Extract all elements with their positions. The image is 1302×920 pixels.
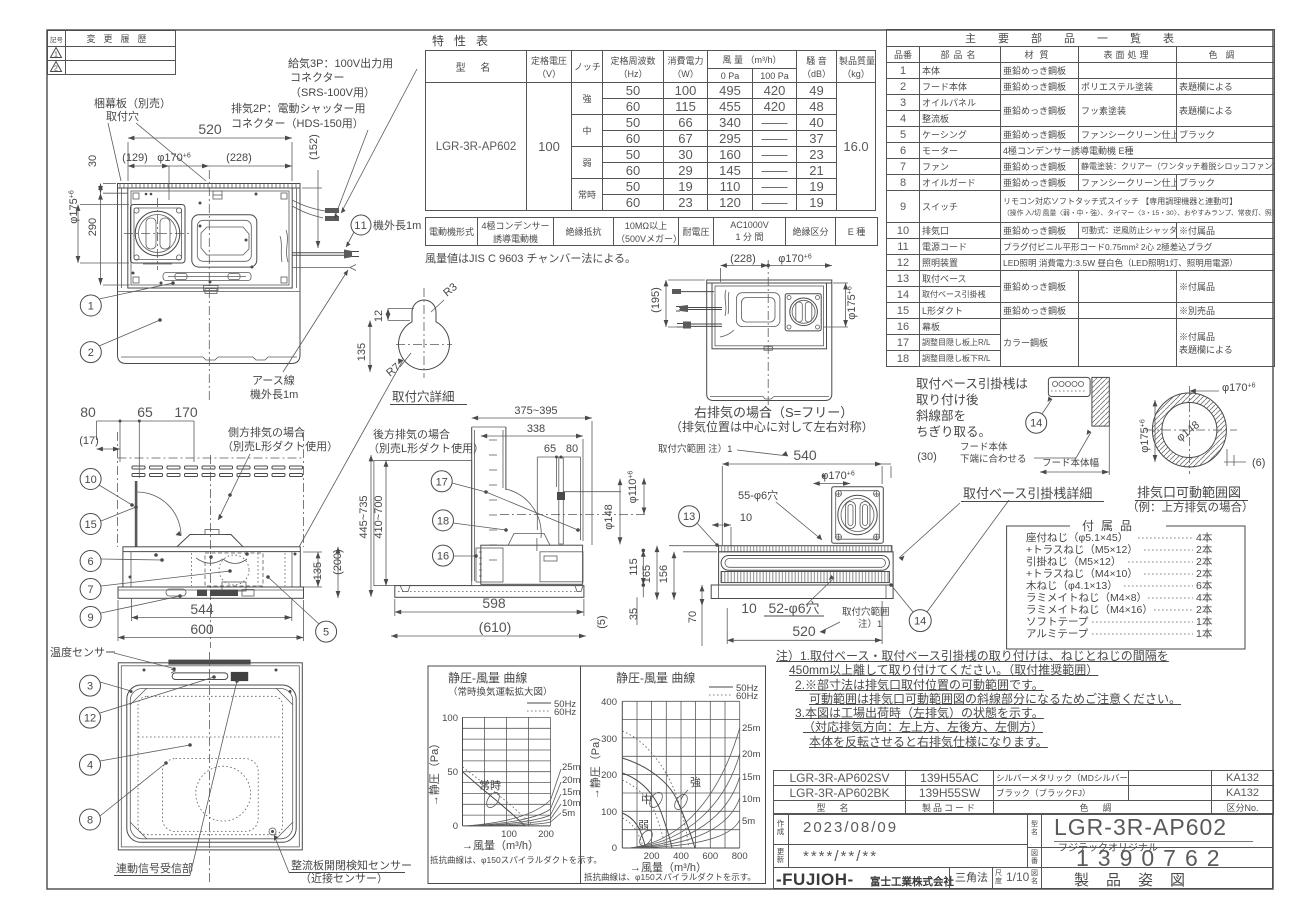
mounting base: exhaust outlet assembly xyxy=(832,487,884,544)
hanger detail: hood width dim xyxy=(1040,426,1109,475)
svg-text:(200): (200) xyxy=(332,549,344,575)
svg-text:コネクター: コネクター xyxy=(290,71,345,84)
right graph resistance curves xyxy=(628,723,761,848)
circled 11 cord length xyxy=(346,215,421,247)
front view: bottom oil panel xyxy=(118,587,304,598)
svg-text:3: 3 xyxy=(87,681,93,693)
side view dims 445-735 410-700 xyxy=(358,455,386,597)
svg-text:（例：上方排気の場合）: （例：上方排気の場合） xyxy=(1127,500,1254,514)
svg-text:ラミメイトねじ（M4×8）: ラミメイトねじ（M4×8） xyxy=(1026,592,1147,604)
hanger detail: instruction text xyxy=(916,376,1028,439)
svg-text:（SRS-100V用）: （SRS-100V用） xyxy=(290,86,375,99)
svg-text:10: 10 xyxy=(84,474,96,486)
circled 16 xyxy=(433,545,478,566)
mounting base dims 165 156 70 xyxy=(641,546,717,646)
mounting base dim 520 xyxy=(727,601,882,644)
svg-text:290: 290 xyxy=(87,218,99,236)
title block top rows xyxy=(773,770,1274,815)
right exhaust dims xyxy=(650,253,858,327)
svg-text:0: 0 xyxy=(612,843,617,854)
svg-text:598: 598 xyxy=(482,595,506,611)
svg-text:6本: 6本 xyxy=(1196,579,1213,592)
characteristics table xyxy=(425,50,876,211)
svg-text:φ170+6: φ170+6 xyxy=(778,253,812,265)
circled 7 xyxy=(80,569,232,599)
svg-text:2本: 2本 xyxy=(1196,567,1213,580)
svg-text:(6): (6) xyxy=(1252,457,1265,469)
svg-text:φ175+6: φ175+6 xyxy=(68,190,80,224)
svg-text:200: 200 xyxy=(601,770,617,781)
svg-text:機外長1m: 機外長1m xyxy=(250,387,298,401)
svg-text:→風量（m³/h）: →風量（m³/h） xyxy=(462,839,539,852)
exhaust range figure xyxy=(1139,382,1265,474)
svg-text:520: 520 xyxy=(792,623,816,639)
circled 8 xyxy=(80,763,167,830)
mounting base dim 10 top xyxy=(712,512,752,548)
svg-text:100: 100 xyxy=(601,807,617,818)
svg-text:60Hz: 60Hz xyxy=(736,691,758,702)
top view: power cord with plug xyxy=(292,250,359,259)
circled 13 xyxy=(679,506,719,547)
front view: duct cover dashed region xyxy=(118,432,304,547)
svg-text:2本: 2本 xyxy=(1196,555,1213,568)
front view dim 544 600 xyxy=(118,598,304,641)
svg-text:16: 16 xyxy=(437,551,449,563)
side view dims 375-395 338 xyxy=(472,405,592,545)
svg-text:(610): (610) xyxy=(479,619,512,635)
circled 14 (mounting base) xyxy=(889,500,1009,632)
side view: hood body xyxy=(476,489,583,584)
svg-text:付属品: 付属品 xyxy=(1082,519,1139,533)
mounting base: rails xyxy=(711,546,893,599)
svg-text:(30): (30) xyxy=(917,451,937,463)
svg-text:15m: 15m xyxy=(742,772,761,783)
svg-text:注）1: 注）1 xyxy=(858,618,882,630)
right exhaust labels xyxy=(670,405,874,434)
svg-text:取付穴範囲 注）1: 取付穴範囲 注）1 xyxy=(658,443,732,455)
svg-text:800: 800 xyxy=(732,851,748,862)
side view label rear exhaust xyxy=(368,427,484,455)
front view: swing arc xyxy=(138,492,182,536)
circled 6 xyxy=(80,551,164,572)
svg-text:25m: 25m xyxy=(562,762,581,773)
right graph grid xyxy=(622,701,739,848)
svg-text:14: 14 xyxy=(1030,418,1042,430)
svg-text:165: 165 xyxy=(641,565,653,583)
svg-text:φ175+6: φ175+6 xyxy=(846,286,858,320)
svg-text:抵抗曲線は、φ150スパイラルダクトを示す。: 抵抗曲線は、φ150スパイラルダクトを示す。 xyxy=(430,855,602,865)
label: supply connector 3P xyxy=(288,56,417,213)
svg-text:25m: 25m xyxy=(742,723,761,734)
label: makuita mounting hole xyxy=(94,96,206,181)
circled 3 xyxy=(80,675,132,696)
svg-text:35: 35 xyxy=(628,608,640,620)
top view: exhaust outlet with shutter xyxy=(131,205,186,265)
hanger detail: bracket with holes xyxy=(1048,377,1090,396)
svg-text:60Hz: 60Hz xyxy=(554,707,576,718)
right exhaust top view: wires out left xyxy=(672,289,722,329)
svg-text:65: 65 xyxy=(137,404,153,420)
svg-text:50: 50 xyxy=(447,767,458,778)
top view: bottom tab xyxy=(204,286,219,291)
svg-text:（近接センサー）: （近接センサー） xyxy=(300,872,388,885)
svg-text:20m: 20m xyxy=(742,749,761,760)
svg-text:（排気位置は中心に対して左右対称）: （排気位置は中心に対して左右対称） xyxy=(670,419,874,434)
bottom view: outer frame xyxy=(118,660,302,850)
svg-text:1本: 1本 xyxy=(1196,627,1213,640)
circled 2 xyxy=(80,318,162,362)
label: earth wire xyxy=(250,270,348,401)
circled 5 xyxy=(266,575,336,642)
bottom view: dotted oil panel lines xyxy=(138,696,283,834)
side view: wall-side region xyxy=(374,460,472,585)
svg-text:常時: 常時 xyxy=(479,779,501,792)
right exhaust top view: hood outline xyxy=(707,280,832,401)
svg-text:4: 4 xyxy=(87,760,93,772)
right exhaust top view: body xyxy=(712,283,827,350)
svg-text:9: 9 xyxy=(88,612,94,624)
svg-text:静圧-風量 曲線: 静圧-風量 曲線 xyxy=(448,670,527,685)
svg-text:連動信号受信部: 連動信号受信部 xyxy=(116,861,193,875)
svg-text:14: 14 xyxy=(914,616,926,628)
svg-text:4本: 4本 xyxy=(1196,591,1213,604)
mounting base dim phi170 xyxy=(813,470,855,484)
svg-text:135: 135 xyxy=(356,343,368,361)
JIS note xyxy=(425,250,636,266)
svg-text:55-φ6穴: 55-φ6穴 xyxy=(738,488,778,502)
svg-text:（別売L形ダクト使用）: （別売L形ダクト使用） xyxy=(368,441,484,455)
svg-text:引掛ねじ（M5×12）: 引掛ねじ（M5×12） xyxy=(1026,555,1121,568)
svg-text:フード本体幅: フード本体幅 xyxy=(1042,457,1100,469)
svg-text:取付穴詳細: 取付穴詳細 xyxy=(392,389,455,404)
bottom view: centerline xyxy=(209,652,211,884)
svg-text:排気口可動範囲図: 排気口可動範囲図 xyxy=(1137,485,1241,500)
svg-text:30: 30 xyxy=(87,155,99,167)
notes block xyxy=(776,649,1268,749)
svg-text:5: 5 xyxy=(323,627,329,639)
front view: side duct bar xyxy=(135,481,138,547)
dimension 520 xyxy=(128,121,292,181)
svg-text:取付穴: 取付穴 xyxy=(106,109,139,123)
front view: hood body xyxy=(123,547,300,591)
svg-text:斜線部を: 斜線部を xyxy=(916,408,966,423)
circled 14 (hanger detail) xyxy=(1026,397,1052,434)
side view: exhaust pipe xyxy=(500,458,648,544)
svg-text:1本: 1本 xyxy=(1196,615,1213,628)
svg-text:20m: 20m xyxy=(562,775,581,786)
svg-text:(195): (195) xyxy=(650,287,662,313)
svg-text:1: 1 xyxy=(88,301,94,313)
left graph curves xyxy=(463,762,581,826)
left graph panel xyxy=(428,666,581,884)
dimension 30 / 290 xyxy=(87,155,130,285)
svg-text:600: 600 xyxy=(702,851,718,862)
svg-text:温度センサー: 温度センサー xyxy=(50,645,116,659)
side view: bottom slab xyxy=(395,586,584,598)
svg-text:取付ベース引掛桟詳細: 取付ベース引掛桟詳細 xyxy=(963,486,1092,501)
svg-text:R3: R3 xyxy=(441,281,459,299)
svg-text:(152): (152) xyxy=(308,134,320,160)
hanger detail: align label xyxy=(960,430,1091,466)
svg-text:後方排気の場合: 後方排気の場合 xyxy=(373,427,450,441)
circled 15 xyxy=(80,505,138,534)
circled 1 xyxy=(80,281,175,316)
svg-text:側方排気の場合: 側方排気の場合 xyxy=(228,425,305,439)
svg-text:機外長1m: 機外長1m xyxy=(373,218,421,232)
svg-text:フード本体: フード本体 xyxy=(960,441,1008,453)
top view: hood outline xyxy=(118,184,301,364)
front view centerline xyxy=(210,455,212,648)
svg-text:375~395: 375~395 xyxy=(514,405,557,417)
svg-text:12: 12 xyxy=(373,310,385,322)
bottom view: signal receiver label xyxy=(114,679,239,875)
bottom view: sensors xyxy=(164,669,276,835)
svg-text:12: 12 xyxy=(84,713,96,725)
mounting base label hole range bottom xyxy=(820,606,890,634)
svg-text:φ170+6: φ170+6 xyxy=(1222,382,1256,394)
svg-text:右排気の場合（S=フリー）: 右排気の場合（S=フリー） xyxy=(694,405,853,420)
keyhole mounting hole detail xyxy=(356,281,467,404)
svg-text:445~735: 445~735 xyxy=(358,495,370,538)
top view: body box xyxy=(122,188,297,288)
svg-text:φ148: φ148 xyxy=(1174,419,1201,444)
svg-text:2本: 2本 xyxy=(1196,543,1213,556)
bottom view: oil panel xyxy=(127,685,296,842)
hanger detail title xyxy=(899,486,1104,561)
svg-text:取付ベース引掛桟は: 取付ベース引掛桟は xyxy=(916,376,1028,391)
svg-text:70: 70 xyxy=(687,611,699,623)
front view label side exhaust xyxy=(218,425,338,520)
svg-text:170: 170 xyxy=(174,404,198,420)
svg-text:（別売L形ダクト使用）: （別売L形ダクト使用） xyxy=(222,439,338,453)
svg-text:10m: 10m xyxy=(742,794,761,805)
svg-text:338: 338 xyxy=(527,423,545,435)
bottom view: temp sensor label xyxy=(50,645,176,671)
svg-text:給気3P：100V出力用: 給気3P：100V出力用 xyxy=(288,56,393,70)
svg-text:下端に合わせる: 下端に合わせる xyxy=(960,453,1027,465)
front view dim 135 (200) xyxy=(303,547,344,598)
svg-text:強: 強 xyxy=(690,776,701,789)
top view: wiring and connectors xyxy=(280,200,339,262)
front view: blower housing bump xyxy=(177,530,243,547)
left graph axis labels xyxy=(427,713,602,865)
svg-text:200: 200 xyxy=(538,829,554,840)
svg-text:156: 156 xyxy=(658,565,670,583)
circled 9 xyxy=(80,594,182,627)
svg-text:52-φ6穴: 52-φ6穴 xyxy=(768,600,819,616)
svg-text:アルミテープ: アルミテープ xyxy=(1026,628,1089,640)
svg-text:φ175+6: φ175+6 xyxy=(1139,419,1151,453)
svg-text:+トラスねじ（M4×10）: +トラスねじ（M4×10） xyxy=(1026,568,1138,580)
dimension phi175 left xyxy=(68,190,129,263)
circled 12 xyxy=(80,675,216,728)
dimension (129) phi170 (228) xyxy=(122,152,292,200)
svg-text:アース線: アース線 xyxy=(252,373,295,387)
accessories items xyxy=(1026,531,1213,640)
svg-text:200: 200 xyxy=(644,851,660,862)
svg-text:(17): (17) xyxy=(79,435,99,447)
svg-text:18: 18 xyxy=(437,515,449,527)
front view dims 80 65 170 (17) xyxy=(79,404,198,478)
right exhaust top view: centerline xyxy=(767,260,769,418)
circled 18 xyxy=(433,510,508,532)
svg-text:65: 65 xyxy=(544,443,556,455)
svg-text:400: 400 xyxy=(601,697,617,708)
svg-text:300: 300 xyxy=(601,734,617,745)
svg-text:座付ねじ（φ5.1×45）: 座付ねじ（φ5.1×45） xyxy=(1026,531,1128,544)
svg-text:135: 135 xyxy=(312,562,324,580)
svg-text:15: 15 xyxy=(84,519,96,531)
characteristics table title xyxy=(432,32,532,49)
svg-text:梱幕板（別売）: 梱幕板（別売） xyxy=(94,96,171,110)
right graph fan curves xyxy=(622,731,695,848)
svg-text:5m: 5m xyxy=(742,816,755,827)
exhaust range figure title xyxy=(1127,485,1254,514)
label: exhaust connector 2P xyxy=(231,101,368,219)
svg-text:6: 6 xyxy=(88,556,94,568)
svg-text:17: 17 xyxy=(436,476,448,488)
svg-text:ちぎり取る。: ちぎり取る。 xyxy=(916,425,991,439)
svg-text:木ねじ（φ4.1×13）: 木ねじ（φ4.1×13） xyxy=(1026,580,1118,592)
mounting base labels 10 52 holes xyxy=(741,575,834,616)
svg-text:400: 400 xyxy=(673,851,689,862)
svg-text:→静圧（Pa）: →静圧（Pa） xyxy=(588,731,602,799)
mounting base dim 540 (30) xyxy=(722,447,936,545)
svg-text:→静圧（Pa）: →静圧（Pa） xyxy=(427,738,441,806)
svg-text:(228): (228) xyxy=(226,152,252,164)
svg-text:8: 8 xyxy=(87,815,93,827)
svg-text:弱: 弱 xyxy=(638,819,649,832)
top view: centerlines xyxy=(124,170,209,400)
side view dims 65 80 xyxy=(537,443,580,540)
top view: fan casing xyxy=(192,215,257,267)
svg-text:抵抗曲線は、φ150スパイラルダクトを示す。: 抵抗曲線は、φ150スパイラルダクトを示す。 xyxy=(584,872,756,882)
svg-text:ラミメイトねじ（M4×16）: ラミメイトねじ（M4×16） xyxy=(1026,604,1153,616)
svg-text:0: 0 xyxy=(453,821,458,832)
svg-text:φ170+6: φ170+6 xyxy=(157,152,191,164)
side view dims 598 (610) xyxy=(391,595,586,636)
mounting base label 55 holes xyxy=(738,488,822,540)
svg-text:2本: 2本 xyxy=(1196,603,1213,616)
mounting base: label hole range top xyxy=(658,443,788,456)
change history table xyxy=(47,30,176,75)
svg-text:取り付け後: 取り付け後 xyxy=(916,393,979,407)
svg-text:φ170+6: φ170+6 xyxy=(821,470,855,482)
svg-text:(129): (129) xyxy=(122,152,148,164)
svg-text:10: 10 xyxy=(741,600,757,616)
svg-text:15m: 15m xyxy=(562,787,581,798)
svg-text:2: 2 xyxy=(54,66,58,73)
svg-text:コネクター（HDS-150用）: コネクター（HDS-150用） xyxy=(231,117,364,130)
svg-text:1: 1 xyxy=(54,52,58,59)
svg-text:（常時換気運転拡大図）: （常時換気運転拡大図） xyxy=(448,686,553,698)
svg-text:静圧-風量 曲線: 静圧-風量 曲線 xyxy=(616,670,695,685)
side view dims phi110 phi148 xyxy=(563,471,644,545)
top view: earth wire xyxy=(292,265,356,271)
svg-text:2: 2 xyxy=(88,347,94,359)
side view: duct channel xyxy=(472,427,506,581)
motor spec table xyxy=(425,217,878,246)
svg-text:80: 80 xyxy=(566,443,578,455)
svg-text:540: 540 xyxy=(793,447,817,463)
svg-text:7: 7 xyxy=(88,584,94,596)
svg-text:600: 600 xyxy=(190,621,214,637)
hanger detail: hatched flap xyxy=(1092,377,1109,426)
right graph panel xyxy=(581,666,766,884)
svg-text:4本: 4本 xyxy=(1196,531,1213,544)
svg-text:10: 10 xyxy=(740,512,752,524)
svg-text:100: 100 xyxy=(442,713,458,724)
bottom view: proximity sensor label xyxy=(274,835,412,885)
svg-text:5m: 5m xyxy=(562,808,575,819)
side view dims 115 165 35 (5) xyxy=(596,549,645,629)
dimension (152) xyxy=(302,134,322,248)
svg-text:520: 520 xyxy=(198,121,222,137)
change history triangles xyxy=(51,48,62,73)
svg-text:(5): (5) xyxy=(596,615,608,628)
accessories box xyxy=(1007,519,1245,649)
svg-text:φ110+6: φ110+6 xyxy=(627,471,639,504)
right graph notch labels xyxy=(637,776,701,848)
svg-text:13: 13 xyxy=(683,511,695,523)
svg-text:ソフトテープ: ソフトテープ xyxy=(1026,616,1089,628)
svg-text:80: 80 xyxy=(80,404,96,420)
left graph grid xyxy=(463,717,551,826)
circled 4 xyxy=(80,745,191,775)
svg-text:φ148: φ148 xyxy=(603,504,615,530)
svg-text:544: 544 xyxy=(190,601,214,617)
svg-text:115: 115 xyxy=(628,558,640,576)
leader from front view to keyhole detail xyxy=(299,359,403,548)
title block bottom xyxy=(773,813,1273,889)
svg-text:410~700: 410~700 xyxy=(373,495,385,538)
circled 10 xyxy=(80,469,134,507)
circled 17 xyxy=(431,471,580,532)
front view: louver slots xyxy=(132,466,303,477)
svg-text:(228): (228) xyxy=(730,253,756,265)
right graph axis labels xyxy=(584,697,756,882)
svg-text:100: 100 xyxy=(501,829,517,840)
parts list table title+table xyxy=(886,29,1275,367)
svg-text:整流板開閉検知センサー: 整流板開閉検知センサー xyxy=(291,858,412,872)
svg-text:+トラスねじ（M5×12）: +トラスねじ（M5×12） xyxy=(1026,544,1138,556)
svg-text:11: 11 xyxy=(354,220,367,232)
svg-text:排気2P：電動シャッター用: 排気2P：電動シャッター用 xyxy=(231,101,365,115)
